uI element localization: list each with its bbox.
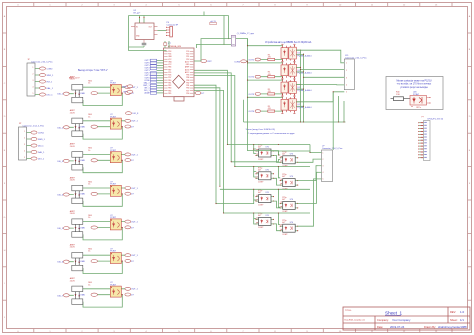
svg-text:OUT3: OUT3 (248, 94, 254, 96)
svg-text:OUT: OUT (149, 26, 152, 28)
svg-text:5: 5 (323, 179, 324, 181)
svg-text:Drawn By:: Drawn By: (424, 325, 436, 329)
svg-text:2: 2 (346, 70, 347, 72)
svg-text:PB0: PB0 (186, 88, 189, 90)
svg-text:PD5: PD5 (168, 72, 171, 74)
svg-text:ANR? 24.7V: ANR? 24.7V (69, 77, 80, 80)
svg-text:CON0: CON0 (47, 68, 54, 70)
svg-text:DIO_1: DIO_1 (47, 94, 54, 96)
svg-text:PC6: PC6 (186, 51, 189, 53)
svg-text:REV:: REV: (450, 310, 456, 314)
svg-text:SW1_1: SW1_1 (47, 75, 55, 77)
svg-text:Sheet_1: Sheet_1 (385, 311, 403, 316)
svg-text:PD1: PD1 (186, 56, 189, 58)
svg-text:PD7: PD7 (168, 77, 171, 79)
svg-text:DI0_3: DI0_3 (57, 161, 63, 163)
svg-text:Easy EDA - easyeda com: Easy EDA - easyeda com (345, 319, 366, 322)
svg-text:PD2: PD2 (186, 59, 189, 61)
svg-text:PB7: PB7 (168, 69, 171, 71)
svg-text:что на side, он 170 без в личн: что на side, он 170 без в личных (397, 84, 432, 86)
svg-text:Выход опторе 7 пин "ОУТ-х": Выход опторе 7 пин "ОУТ-х" (78, 70, 108, 72)
svg-text:PD0: PD0 (186, 54, 189, 56)
svg-text:DIO_8: DIO_8 (133, 113, 140, 115)
svg-text:CON0: CON0 (234, 61, 241, 63)
svg-text:G: G (4, 217, 6, 219)
svg-text:DI0_1: DI0_1 (38, 145, 44, 147)
svg-text:(1_24MHz_1?_opp: (1_24MHz_1?_opp (237, 33, 255, 35)
svg-text:Устройства авто-це ВВ884 без О: Устройства авто-це ВВ884 без О 30р/30 мА (265, 41, 312, 44)
svg-text:ATMEGA_08S: ATMEGA_08S (168, 45, 182, 48)
svg-text:PD3: PD3 (168, 51, 171, 53)
svg-text:PB5: PB5 (168, 93, 171, 95)
svg-text:углового резус на выходы: углового резус на выходы (400, 87, 428, 89)
svg-text:DI0_1: DI0_1 (57, 94, 63, 96)
svg-text:BT_po?: BT_po? (134, 13, 141, 15)
svg-text:PB3: PB3 (168, 88, 171, 90)
svg-text:DAL_1: DAL_1 (38, 151, 45, 154)
svg-text:3: 3 (346, 77, 347, 79)
svg-text:1: 1 (323, 152, 324, 154)
svg-text:цН_5V: цН_5V (210, 21, 216, 23)
svg-text:G: G (469, 217, 471, 219)
svg-text:DI0_4: DI0_4 (57, 195, 63, 197)
svg-text:PD6: PD6 (168, 75, 171, 77)
svg-text:SW0_1: SW0_1 (38, 139, 46, 141)
svg-text:Connector_2.54_5_Pins: Connector_2.54_5_Pins (31, 60, 52, 63)
svg-text:DI0_7: DI0_7 (57, 295, 63, 297)
svg-text:ОРСx: ОРСx (416, 107, 421, 109)
svg-text:DIO_1: DIO_1 (38, 158, 45, 160)
svg-text:2019-07-24: 2019-07-24 (390, 325, 405, 329)
svg-text:PB5: PB5 (186, 75, 189, 77)
svg-text:1/16: 1/16 (396, 94, 400, 96)
svg-text:PD4: PD4 (168, 54, 171, 56)
svg-text:DI0_6: DI0_6 (57, 262, 63, 264)
svg-text:5: 5 (346, 92, 347, 94)
svg-text:OUT2: OUT2 (248, 77, 254, 79)
svg-text:RST: RST (208, 61, 213, 63)
svg-text:PB4: PB4 (186, 77, 189, 79)
svg-text:OUT4: OUT4 (248, 111, 254, 113)
svg-text:DF13-2P-1.25V 1td: DF13-2P-1.25V 1td (428, 118, 443, 121)
svg-text:PB2: PB2 (168, 85, 171, 87)
svg-text:Запоп (вход 4 шт. N-ВСЕ-О5): Запоп (вход 4 шт. N-ВСЕ-О5) (246, 129, 276, 131)
svg-text:4: 4 (323, 172, 324, 174)
svg-text:J: J (4, 317, 5, 319)
svg-text:PB1: PB1 (186, 85, 189, 87)
svg-text:Company:: Company: (377, 318, 389, 322)
svg-text:A24M: A24M (145, 92, 150, 95)
svg-text:PB6: PB6 (168, 67, 171, 69)
svg-text:PB4: PB4 (168, 90, 171, 92)
svg-text:4: 4 (346, 85, 347, 87)
svg-text:Sheet:: Sheet: (450, 318, 458, 322)
svg-text:1/1: 1/1 (460, 318, 464, 322)
svg-text:DI0_5: DI0_5 (57, 228, 63, 230)
svg-text:PB3: PB3 (186, 80, 189, 82)
svg-text:U?: U? (322, 145, 324, 147)
svg-text:Connector_2.54_5_Pins: Connector_2.54_5_Pins (23, 124, 44, 127)
svg-text:P?: P? (422, 117, 424, 119)
svg-text:3: 3 (323, 166, 324, 168)
svg-text:PB2: PB2 (186, 82, 189, 84)
svg-text:1.0: 1.0 (460, 310, 465, 314)
svg-text:PD7: PD7 (186, 90, 189, 92)
svg-text:PD6: PD6 (186, 93, 189, 95)
svg-text:1: 1 (346, 63, 347, 65)
svg-text:Date:: Date: (377, 325, 383, 329)
svg-text:shahshreyy/texlav1988: shahshreyy/texlav1988 (438, 325, 467, 329)
svg-text:Your Company: Your Company (392, 318, 411, 322)
svg-text:Connector_2.54_5_Pins: Connector_2.54_5_Pins (322, 147, 342, 150)
svg-text:DAL_1: DAL_1 (47, 87, 54, 90)
svg-text:TITLE:: TITLE: (345, 310, 352, 312)
svg-text:DI0_2: DI0_2 (57, 127, 63, 129)
svg-text:Connector_2.54_5_Pins: Connector_2.54_5_Pins (345, 57, 366, 60)
svg-text:CON1: CON1 (38, 132, 45, 134)
svg-text:OUT1: OUT1 (248, 60, 254, 62)
svg-text:Механ contactor может на PC/SU: Механ contactor может на PC/SU (396, 79, 431, 82)
svg-text:С переходами джамп. и С пополн: С переходами джамп. и С пополнение за дв… (248, 133, 296, 135)
svg-text:PB0: PB0 (168, 80, 171, 82)
svg-text:2: 2 (323, 159, 324, 161)
svg-text:PB1: PB1 (168, 82, 171, 84)
svg-text:INT_1: INT_1 (47, 81, 54, 83)
